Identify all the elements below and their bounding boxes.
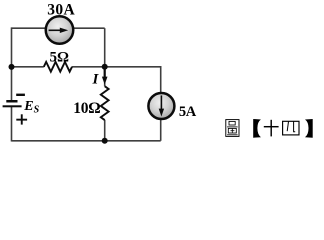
svg-text:5Ω: 5Ω bbox=[50, 49, 70, 65]
wire middle horizontal right segment to right branch bbox=[72, 66, 161, 68]
svg-text:E: E bbox=[23, 99, 33, 114]
wire left vertical lower bbox=[11, 107, 13, 142]
junction node left bbox=[9, 64, 15, 70]
wire middle vertical top segment bbox=[104, 28, 106, 86]
caption: Chinese character ten bbox=[264, 120, 279, 137]
svg-text:10Ω: 10Ω bbox=[73, 100, 100, 117]
resistor R 5ohm zigzag bbox=[44, 62, 72, 72]
svg-text:5A: 5A bbox=[179, 104, 197, 120]
minus sign bbox=[16, 94, 25, 96]
label Es bbox=[23, 99, 39, 115]
caption: right black lenticular bracket bbox=[305, 119, 313, 138]
plus sign bbox=[16, 114, 27, 124]
caption: Chinese figure label "tu" character bbox=[226, 120, 239, 137]
wire right vertical bbox=[160, 66, 162, 141]
wire bottom horizontal bbox=[12, 140, 161, 142]
wire left vertical upper bbox=[11, 27, 13, 100]
junction node middle top bbox=[102, 64, 108, 70]
current arrow I on middle branch bbox=[102, 68, 108, 85]
wire middle vertical bottom segment bbox=[104, 120, 106, 141]
svg-text:30A: 30A bbox=[47, 1, 75, 18]
battery source Es top (negative) plate bbox=[6, 100, 17, 103]
battery source Es bottom (positive) plate bbox=[3, 105, 22, 107]
caption: left black lenticular bracket bbox=[253, 119, 261, 138]
resistor R 10ohm zigzag vertical bbox=[101, 86, 109, 120]
junction node middle bottom bbox=[102, 138, 108, 144]
wire top horizontal bbox=[12, 27, 105, 29]
current source 30A circle bbox=[46, 16, 74, 44]
current source 5A circle bbox=[148, 93, 174, 119]
wire middle horizontal left segment bbox=[12, 66, 44, 68]
svg-text:I: I bbox=[92, 71, 100, 87]
svg-text:S: S bbox=[34, 104, 40, 115]
caption: Chinese character four bbox=[283, 121, 299, 135]
